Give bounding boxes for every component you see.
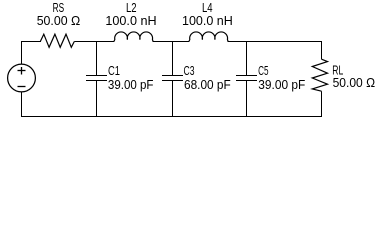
svg-text:100.0 nH: 100.0 nH <box>105 13 156 28</box>
svg-text:50.00 Ω: 50.00 Ω <box>37 13 81 28</box>
svg-text:50.00 Ω: 50.00 Ω <box>333 75 376 90</box>
svg-text:100.0 nH: 100.0 nH <box>182 13 233 28</box>
svg-text:68.00 pF: 68.00 pF <box>184 77 231 92</box>
svg-text:C1: C1 <box>108 63 120 78</box>
svg-text:39.00 pF: 39.00 pF <box>258 77 305 92</box>
svg-text:C3: C3 <box>184 63 195 78</box>
svg-text:C5: C5 <box>258 63 268 78</box>
svg-text:39.00 pF: 39.00 pF <box>108 77 154 92</box>
